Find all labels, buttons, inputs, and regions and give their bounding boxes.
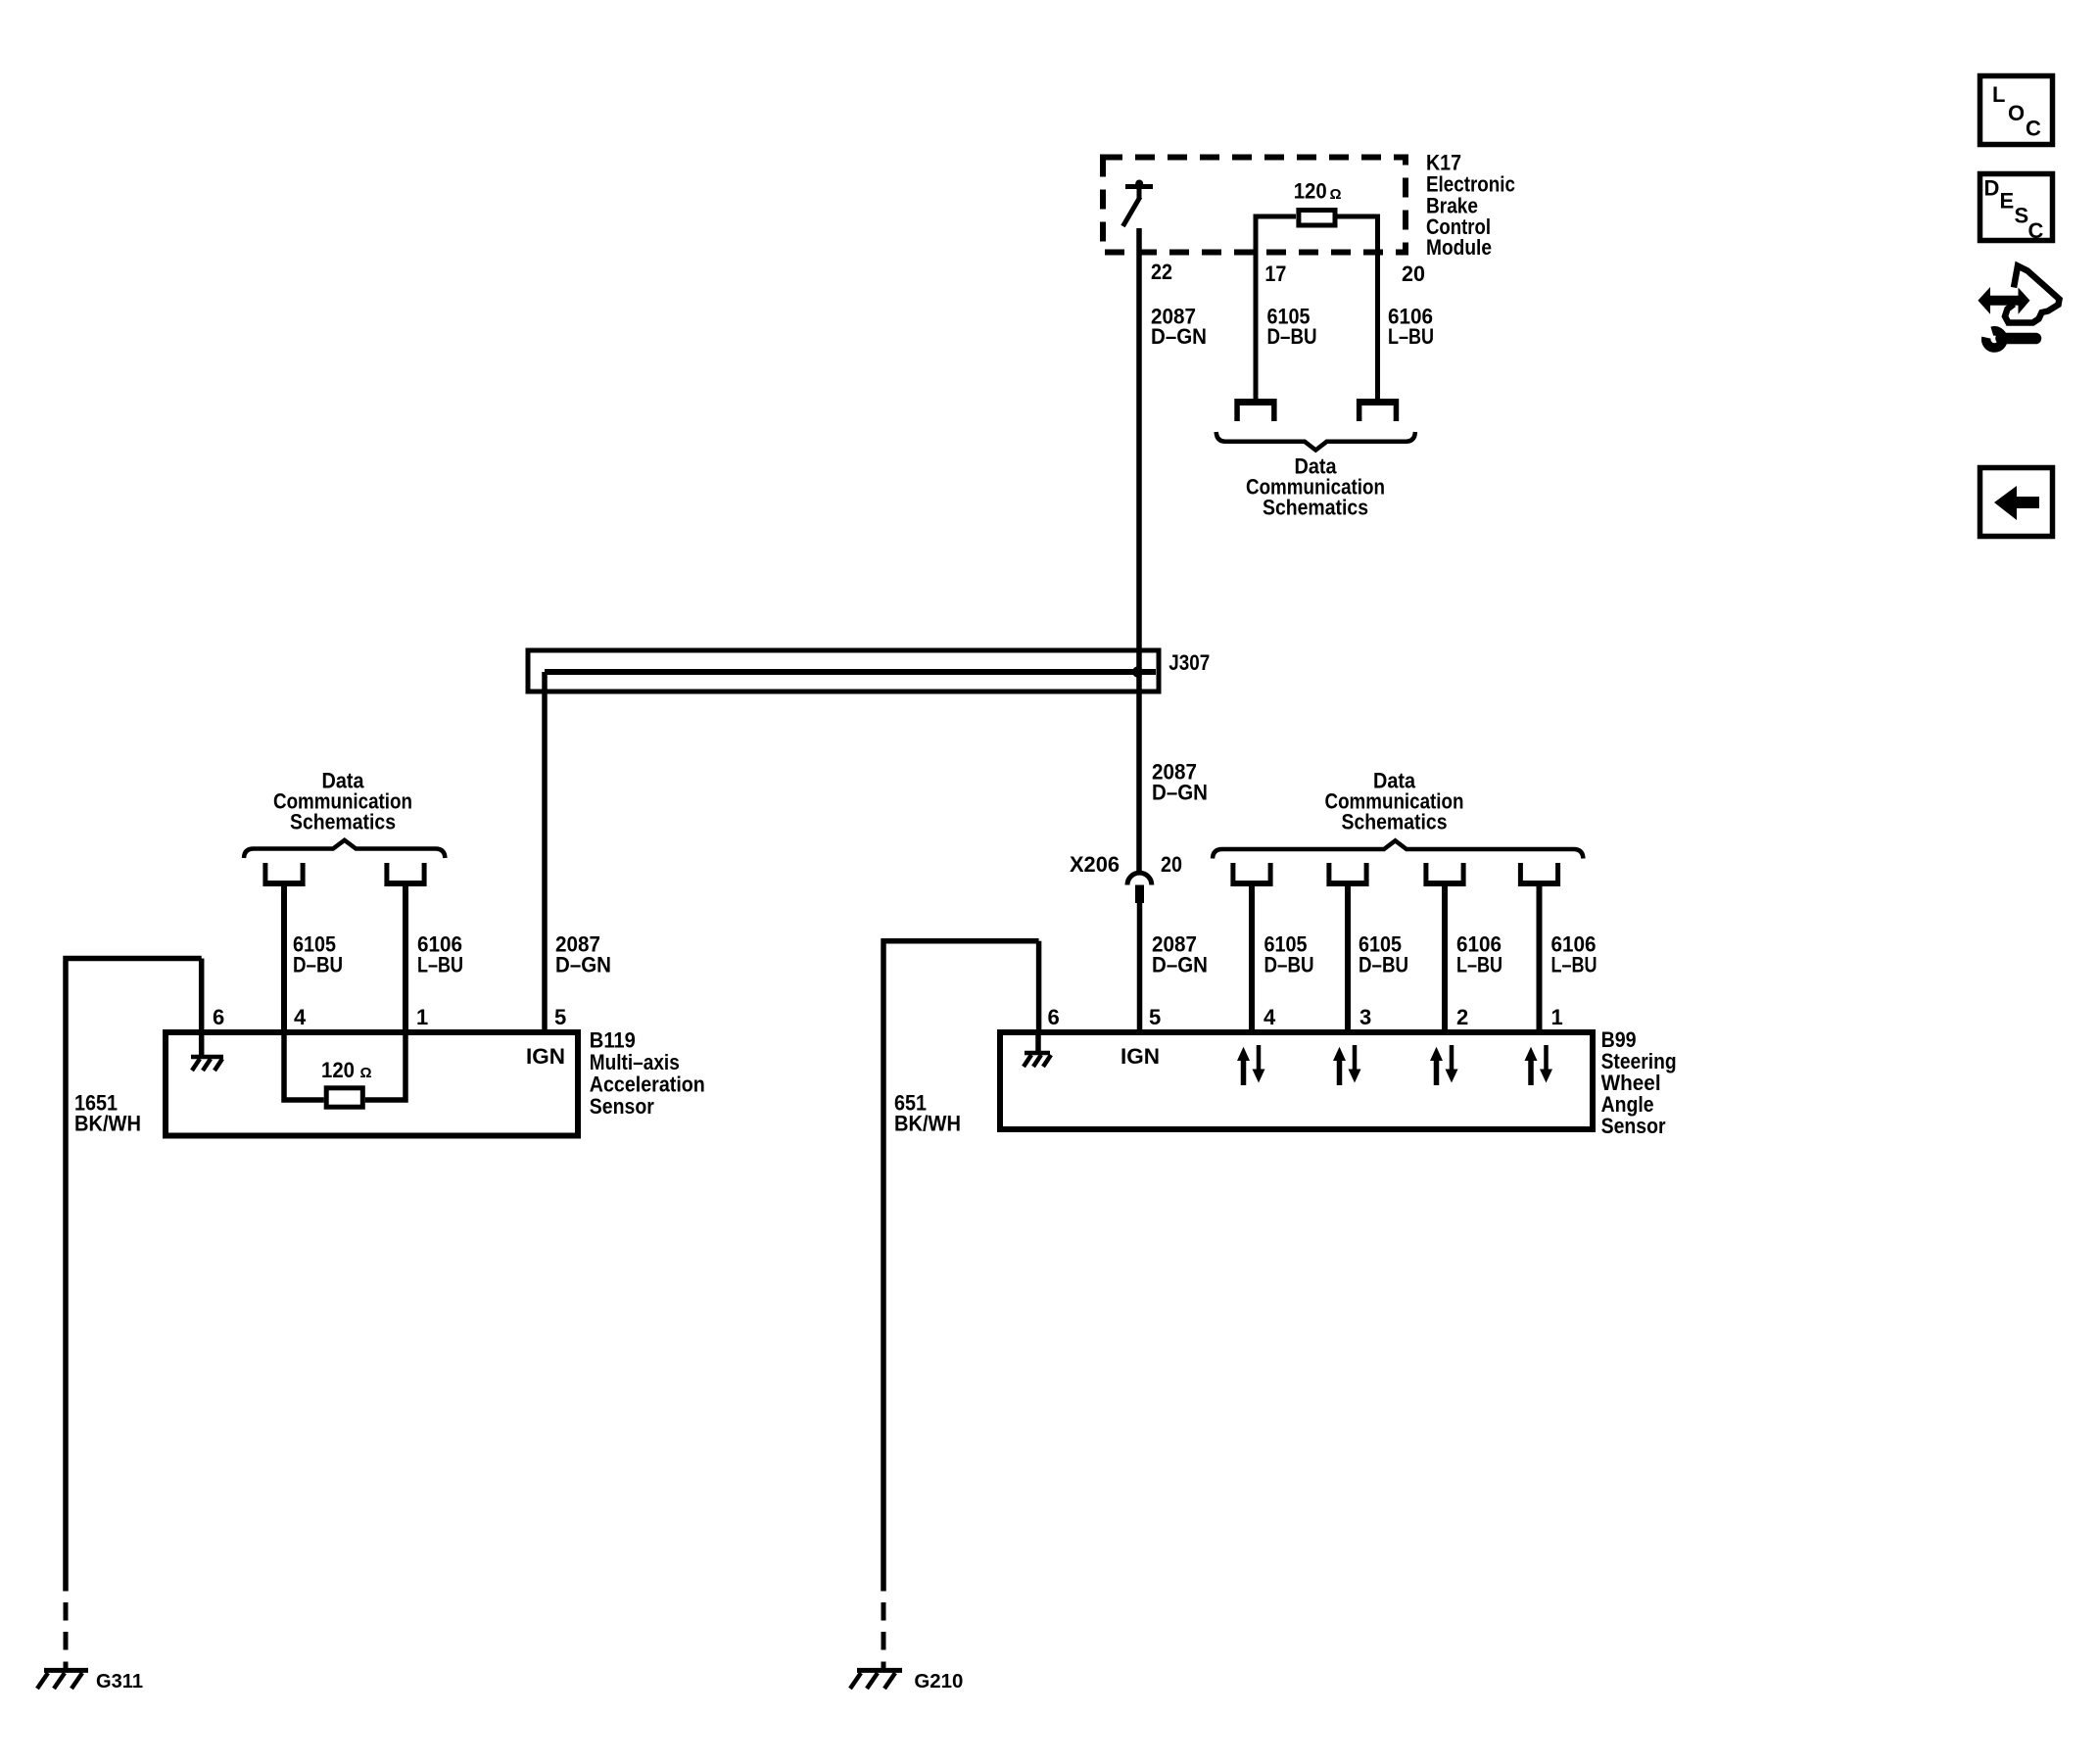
svg-text:22: 22 — [1151, 260, 1172, 284]
svg-text:G311: G311 — [96, 1671, 143, 1692]
svg-text:5: 5 — [554, 1005, 566, 1029]
svg-text:1: 1 — [416, 1005, 428, 1029]
svg-text:D–BU: D–BU — [1267, 324, 1317, 349]
svg-text:L–BU: L–BU — [1388, 324, 1434, 349]
svg-text:3: 3 — [1359, 1005, 1371, 1029]
svg-text:L–BU: L–BU — [1551, 953, 1597, 977]
svg-text:S: S — [2015, 204, 2029, 228]
svg-text:D–BU: D–BU — [1264, 953, 1314, 977]
svg-text:D–GN: D–GN — [1151, 324, 1207, 349]
svg-text:4: 4 — [1264, 1005, 1276, 1029]
svg-text:Module: Module — [1426, 235, 1492, 260]
svg-text:5: 5 — [1149, 1005, 1161, 1029]
svg-text:D: D — [1984, 176, 2000, 201]
svg-text:D–BU: D–BU — [1359, 953, 1408, 977]
svg-text:20: 20 — [1161, 852, 1182, 877]
svg-text:L–BU: L–BU — [1456, 953, 1502, 977]
svg-text:G210: G210 — [914, 1671, 963, 1692]
svg-text:4: 4 — [294, 1005, 307, 1029]
svg-text:BK/WH: BK/WH — [74, 1112, 141, 1136]
svg-text:6: 6 — [213, 1005, 224, 1029]
svg-text:2: 2 — [1456, 1005, 1468, 1029]
svg-text:120: 120 — [321, 1058, 355, 1082]
svg-text:20: 20 — [1402, 262, 1425, 286]
svg-text:D–GN: D–GN — [1152, 781, 1208, 805]
svg-text:D–GN: D–GN — [1152, 953, 1208, 977]
svg-text:Multi–axis: Multi–axis — [590, 1050, 680, 1074]
svg-text:L: L — [1992, 82, 2005, 107]
svg-text:J307: J307 — [1168, 650, 1210, 675]
svg-text:BK/WH: BK/WH — [894, 1112, 961, 1136]
svg-text:Ω: Ω — [1330, 186, 1342, 203]
svg-text:L–BU: L–BU — [417, 953, 463, 977]
svg-text:B119: B119 — [590, 1028, 636, 1053]
svg-text:1: 1 — [1551, 1005, 1563, 1029]
svg-text:Ω: Ω — [360, 1065, 372, 1081]
svg-text:Acceleration: Acceleration — [590, 1073, 705, 1097]
svg-text:IGN: IGN — [526, 1044, 565, 1069]
svg-text:Schematics: Schematics — [1342, 810, 1448, 834]
svg-text:O: O — [2008, 101, 2025, 125]
svg-text:D–BU: D–BU — [293, 953, 343, 977]
svg-text:Sensor: Sensor — [590, 1094, 654, 1119]
svg-text:C: C — [2028, 218, 2044, 243]
svg-text:120: 120 — [1294, 179, 1327, 204]
svg-text:X206: X206 — [1070, 852, 1120, 877]
svg-text:E: E — [2000, 189, 2015, 214]
svg-text:Schematics: Schematics — [290, 810, 396, 834]
svg-text:D–GN: D–GN — [555, 953, 611, 977]
svg-text:6: 6 — [1048, 1005, 1060, 1029]
svg-text:Schematics: Schematics — [1263, 496, 1368, 520]
svg-text:C: C — [2026, 117, 2041, 141]
svg-text:Sensor: Sensor — [1601, 1114, 1666, 1138]
svg-text:IGN: IGN — [1121, 1044, 1160, 1069]
svg-text:17: 17 — [1264, 262, 1286, 286]
